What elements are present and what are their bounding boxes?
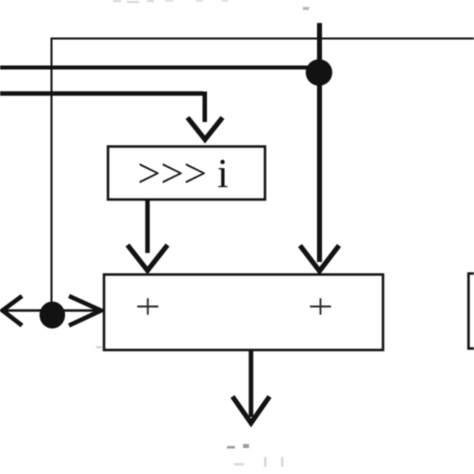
svg-text:>>> i: >>> i [137, 150, 228, 196]
